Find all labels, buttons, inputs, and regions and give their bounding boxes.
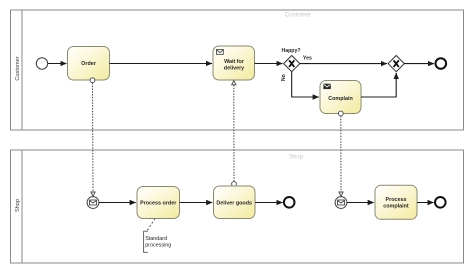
task Order	[68, 47, 110, 81]
message flow: Complain to message event 2 (Shop)	[338, 111, 343, 196]
end event (Shop 2)	[435, 197, 446, 208]
sequence flow: gateway Yes to merge gateway	[300, 63, 387, 65]
pool Customer	[11, 10, 464, 130]
sequence flow: merge gateway to end event	[404, 63, 434, 65]
svg-text:Standard: Standard	[145, 236, 167, 242]
message event 2 (Shop)	[335, 197, 347, 209]
svg-text:Deliver goods: Deliver goods	[216, 200, 252, 206]
end event (Shop 1)	[284, 197, 295, 208]
gateway XOR Happy?	[284, 56, 300, 72]
sequence flow: Process order to Deliver goods	[180, 202, 213, 204]
svg-text:Shop: Shop	[15, 199, 21, 212]
svg-text:Wait for: Wait for	[224, 59, 245, 65]
sequence flow: Complain to merge gateway	[361, 73, 396, 97]
svg-text:Shop: Shop	[289, 155, 304, 161]
start event (Customer)	[36, 58, 47, 69]
text annotation Standard processing	[144, 231, 172, 252]
sequence flow: start to Order	[48, 63, 67, 65]
sequence flow: Deliver goods to end event	[255, 202, 283, 204]
sequence flow: message event 2 to Process complaint	[347, 202, 374, 204]
svg-text:No: No	[281, 74, 287, 81]
svg-text:Customer: Customer	[15, 56, 21, 80]
svg-text:delivery: delivery	[224, 65, 244, 71]
sequence flow: Order to Wait for delivery	[110, 63, 213, 65]
task Process complaint	[375, 185, 417, 219]
task Process order	[137, 187, 180, 219]
sequence flow: Process complaint to end event	[417, 202, 434, 204]
svg-text:Yes: Yes	[303, 55, 312, 61]
svg-text:Order: Order	[81, 61, 97, 67]
sequence flow: Wait for delivery to gateway Happy?	[255, 63, 283, 65]
svg-text:Complain: Complain	[328, 96, 353, 102]
task Wait for delivery (receive)	[213, 46, 255, 80]
message flow: Order to message event (Shop)	[90, 78, 95, 196]
pool Shop	[11, 150, 464, 263]
svg-text:complaint: complaint	[383, 204, 409, 210]
svg-text:processing: processing	[145, 242, 171, 248]
sequence flow: message event to Process order	[99, 202, 136, 204]
association: Process order to annotation	[147, 219, 155, 232]
task Complain (send)	[320, 81, 361, 114]
message start event (Shop)	[87, 197, 99, 209]
svg-text:Happy?: Happy?	[281, 48, 300, 54]
message flow: Deliver goods to Wait for delivery	[232, 81, 237, 187]
svg-text:Process: Process	[386, 197, 407, 203]
task Deliver goods	[214, 186, 256, 219]
end event (Customer)	[436, 58, 447, 69]
svg-text:Process order: Process order	[140, 201, 177, 207]
sequence flow: gateway No down to Complain	[292, 72, 319, 97]
gateway XOR merge	[388, 56, 404, 72]
svg-text:Customer: Customer	[285, 13, 311, 19]
